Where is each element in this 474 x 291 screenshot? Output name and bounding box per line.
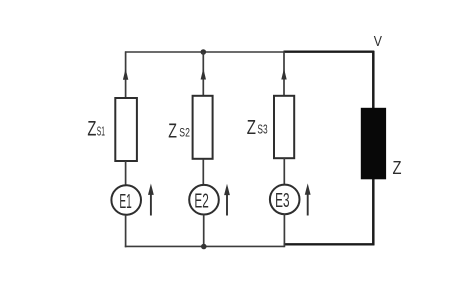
source E1 (circle) (111, 185, 141, 215)
wire: top bus thick segment to node V (284, 51, 375, 53)
wire: branch 3 bottom (E3 to bottom bus) (283, 214, 285, 247)
junction dot: top bus / branch 2 (201, 49, 207, 55)
wire: branch 1 bottom (E1 to bottom bus) (125, 215, 127, 248)
label ZS3 (247, 117, 268, 139)
wire: right vertical (node V down to load and bottom bus) (372, 51, 375, 245)
junction dot: bottom bus / branch 2 (201, 244, 207, 250)
svg-text:Z: Z (87, 118, 96, 141)
svg-text:E2: E2 (194, 190, 208, 212)
source E2 (circle) (189, 185, 219, 215)
wire: branch 1 middle (ZS1 to E1) (125, 161, 127, 186)
impedance ZS2 (rectangle) (193, 96, 213, 159)
impedance ZS1 (rectangle) (115, 98, 137, 161)
svg-text:S2: S2 (179, 125, 190, 139)
svg-text:Z: Z (168, 120, 177, 143)
wire: branch 2 top (junction to ZS2) (202, 52, 204, 97)
current arrowhead branch 1 (123, 69, 128, 80)
wire: bottom bus thin segment (branch 1 to branch 3) (125, 245, 285, 247)
source E3 (circle) (270, 185, 300, 215)
current arrowhead branch 3 (281, 68, 286, 79)
load impedance Z (solid rectangle) (361, 108, 386, 180)
current arrow beside E1 (148, 184, 154, 216)
wire: branch 3 top (top bus to ZS3) (283, 51, 285, 96)
label ZS1 (87, 118, 105, 141)
svg-text:V: V (374, 34, 382, 50)
label ZS2 (168, 120, 190, 143)
wire: branch 2 middle (ZS2 to E2) (202, 159, 204, 186)
wire: bottom bus thick segment (load to branch 3) (284, 243, 375, 245)
wire: branch 2 bottom (E2 to bottom bus) (203, 214, 205, 247)
svg-text:E1: E1 (119, 191, 131, 213)
svg-text:E3: E3 (275, 190, 289, 212)
svg-text:S1: S1 (97, 124, 105, 138)
wire: branch 3 middle (ZS3 to E3) (283, 158, 285, 185)
node V label (374, 34, 382, 50)
svg-text:S3: S3 (257, 123, 267, 137)
current arrow beside E2 (224, 184, 230, 216)
wire: branch 1 top (corner to ZS1) (125, 51, 127, 98)
label Z (load) (393, 158, 402, 178)
current arrow beside E3 (305, 183, 311, 215)
current arrowhead branch 2 (201, 68, 206, 79)
wire: top bus thin segment (node between branches 1-3) (125, 51, 285, 53)
svg-text:Z: Z (393, 158, 402, 178)
impedance ZS3 (rectangle) (274, 96, 294, 158)
svg-text:Z: Z (247, 117, 256, 139)
